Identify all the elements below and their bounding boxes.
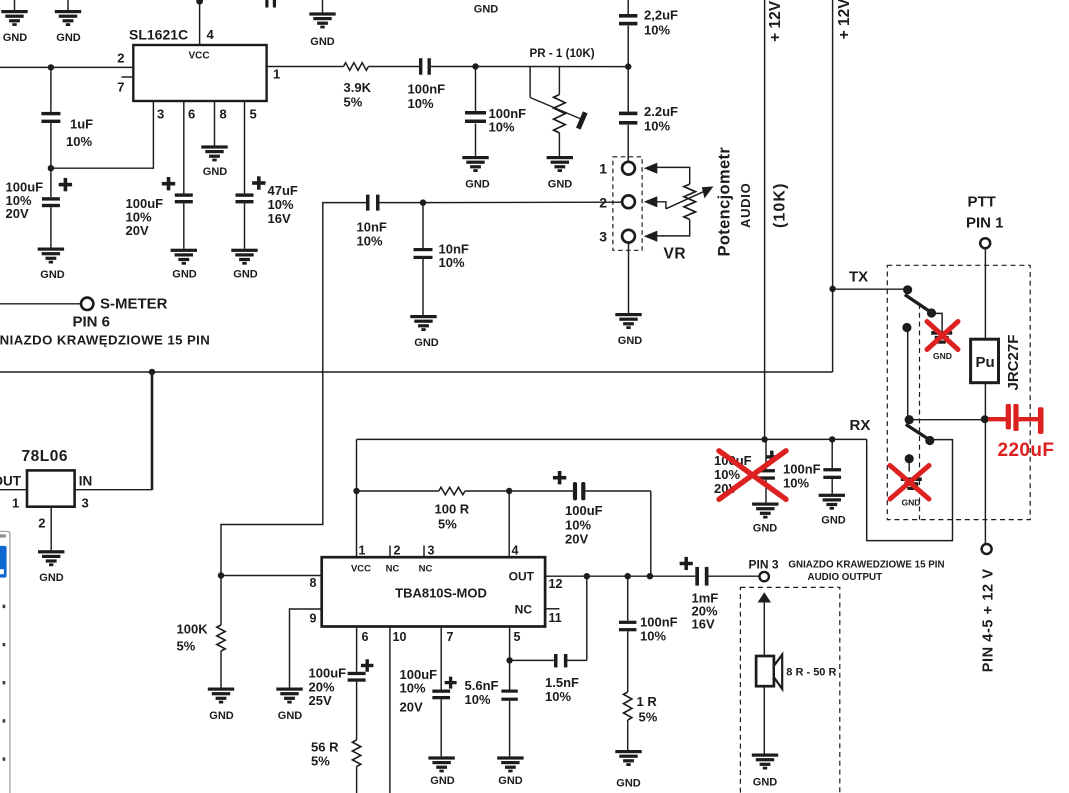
capacitor C 1uF 10% — [41, 112, 60, 115]
svg-text:100uF: 100uF — [309, 666, 347, 681]
thick wire down to 78L06 IN — [151, 372, 154, 490]
svg-text:6: 6 — [362, 630, 369, 644]
trimmer PR-1 resistor body — [558, 67, 560, 95]
svg-text:NC: NC — [419, 564, 433, 575]
svg-text:100K: 100K — [177, 622, 209, 637]
wire node D to 2.2uF — [627, 67, 629, 112]
VR arrow to pin 1 — [644, 163, 658, 174]
terminal PIN 3 circle — [760, 572, 769, 581]
svg-text:PIN 3: PIN 3 — [749, 558, 779, 572]
svg-text:7: 7 — [117, 80, 124, 95]
crossed ground RX (mini) — [901, 477, 922, 481]
U3 pin 6 wire — [356, 627, 358, 672]
speaker dashed outline — [740, 587, 839, 793]
node N junction +12V/RX (765,439) — [761, 436, 767, 442]
capacitor 1uF lower wire — [50, 123, 52, 168]
svg-text:PR - 1 (10K): PR - 1 (10K) — [530, 47, 595, 60]
svg-text:AUDIO: AUDIO — [738, 183, 753, 228]
capacitor C 100nF 10% (below pin12 line) — [627, 576, 629, 621]
svg-text:GND: GND — [498, 775, 523, 787]
svg-text:10%: 10% — [439, 255, 465, 270]
wire down to pin12 node — [650, 491, 652, 576]
capacitor C 2.2uF 10% — [619, 112, 637, 116]
switch SW2 thrown contact — [925, 436, 934, 445]
U2 OUT wire to left edge — [0, 489, 27, 491]
ground below shunt 10nF — [410, 315, 436, 318]
svg-text:GND: GND — [753, 523, 778, 535]
svg-text:1: 1 — [599, 161, 607, 177]
capacitor C 100uF 10% 20V crossed out — [765, 439, 767, 469]
svg-text:1uF: 1uF — [70, 117, 93, 132]
IC U1 SL1621C body — [133, 45, 266, 101]
connector J1 pin 2 circle — [622, 195, 635, 208]
relay inner dashed divider — [919, 304, 921, 520]
wire SW2 lower to crossed ground — [908, 459, 910, 472]
svg-text:GND: GND — [474, 4, 499, 16]
svg-text:3: 3 — [157, 107, 164, 122]
wire pin 1 output — [267, 66, 344, 68]
ground below PR-1 — [547, 156, 573, 159]
U3 pin 3 tick — [423, 546, 425, 558]
svg-text:1 R: 1 R — [637, 694, 658, 709]
svg-text:10%: 10% — [357, 234, 383, 249]
svg-text:GND: GND — [203, 166, 228, 178]
capacitor C 100uF 10% 20V (pin 7) — [432, 690, 450, 693]
node P junction TX (833,289) — [829, 286, 835, 292]
U3 pin 1 wire (VCC) — [356, 491, 358, 557]
capacitor C 220uF (red) — [988, 417, 1006, 421]
node G junction (356,491) — [353, 488, 359, 494]
VR arrow to pin 3 — [644, 231, 658, 242]
svg-text:100nF: 100nF — [783, 462, 821, 477]
capacitor C 100nF 10% (RX) — [831, 439, 833, 468]
svg-text:GNIAZDO KRAWEDZIOWE 15 PIN: GNIAZDO KRAWEDZIOWE 15 PIN — [788, 560, 944, 571]
svg-text:100 R: 100 R — [435, 502, 470, 517]
svg-text:S-METER: S-METER — [100, 296, 168, 313]
svg-text:GND: GND — [548, 179, 573, 191]
U3 pin 10 wire — [389, 627, 391, 793]
wire relay coil down to +12V terminal — [984, 383, 986, 544]
svg-text:3: 3 — [82, 496, 89, 511]
node H junction (509,491) — [506, 488, 512, 494]
ground stub top middle — [322, 0, 324, 12]
node L junction (628,576) — [625, 573, 631, 579]
ground below pin 9 — [276, 688, 302, 691]
svg-text:2,2uF: 2,2uF — [644, 8, 678, 23]
svg-text:4: 4 — [512, 544, 519, 558]
svg-text:+ 12V: + 12V — [836, 0, 853, 39]
svg-text:56 R: 56 R — [311, 740, 339, 755]
switch SW1 TX common contact — [903, 285, 912, 294]
svg-text:GND: GND — [40, 269, 65, 281]
U1 pin 3 wire down and left to node B — [51, 101, 153, 168]
node I junction pin8 (221,576) — [218, 572, 224, 578]
svg-text:3.9K: 3.9K — [344, 80, 372, 95]
svg-text:TBA810S-MOD: TBA810S-MOD — [395, 586, 487, 601]
wire RX detour around relay — [867, 439, 953, 540]
resistor R 56R 5% — [352, 740, 360, 767]
U3 pin 5 wire — [509, 627, 511, 661]
potentiometer VR body — [684, 184, 696, 219]
wire U3 pin 12 output line — [545, 575, 695, 577]
switch SW2 RX common contact — [905, 415, 914, 424]
svg-text:AUDIO OUTPUT: AUDIO OUTPUT — [808, 572, 883, 583]
svg-text:10%: 10% — [640, 629, 666, 644]
rail +12V no.2 vertical — [832, 0, 834, 372]
svg-text:GND: GND — [310, 36, 335, 48]
resistor R 100R 5% — [357, 490, 439, 492]
switch SW1 lever — [905, 295, 932, 313]
capacitor C 1mF 20% 16V — [695, 567, 699, 586]
svg-text:GND: GND — [233, 269, 258, 281]
svg-text:8: 8 — [220, 107, 227, 122]
svg-text:4: 4 — [207, 27, 215, 42]
terminal S-METER circle — [81, 298, 93, 310]
U3 pin 8 wire — [221, 575, 322, 577]
svg-text:11: 11 — [549, 611, 562, 625]
svg-text:NC: NC — [515, 603, 533, 617]
wire resistor to series cap — [368, 66, 419, 68]
svg-text:IN: IN — [79, 474, 93, 489]
ground below 5.6nF — [497, 756, 523, 759]
svg-text:GND: GND — [430, 775, 455, 787]
wire series cap to node C — [431, 66, 476, 68]
wire SW1 to crossed ground — [932, 313, 943, 331]
svg-text:RX: RX — [850, 417, 871, 434]
sidebar panel border — [0, 531, 10, 793]
wire 2.2uF to connector pin 1 — [627, 125, 629, 162]
svg-text:GND: GND — [933, 351, 952, 361]
U1 pin 8 wire — [214, 101, 216, 145]
svg-text:3: 3 — [599, 229, 607, 245]
wire pin 2 to left edge — [0, 66, 133, 68]
wire to S-METER terminal — [0, 303, 81, 305]
svg-text:SL1621C: SL1621C — [129, 27, 188, 43]
svg-text:5: 5 — [250, 107, 257, 122]
svg-text:20V: 20V — [565, 532, 588, 547]
svg-text:Potencjometr: Potencjometr — [716, 147, 734, 257]
svg-text:10%: 10% — [489, 120, 515, 135]
svg-text:+ 12V: + 12V — [767, 0, 784, 42]
red X over TX ground — [927, 322, 958, 350]
switch SW1 thrown contact — [927, 308, 936, 317]
svg-text:47uF: 47uF — [268, 183, 298, 198]
svg-text:GND: GND — [172, 269, 197, 281]
node M junction (650,576) — [647, 573, 653, 579]
capacitor C 100uF 20% 25V (pin 6) — [348, 672, 366, 675]
U1 pin 5 wire — [244, 101, 246, 193]
svg-text:10%: 10% — [545, 689, 571, 704]
svg-text:16V: 16V — [268, 211, 291, 226]
svg-text:10%: 10% — [644, 23, 670, 38]
svg-text:100nF: 100nF — [408, 82, 446, 97]
VR wiper arm with arrow — [666, 191, 705, 209]
U3 pin 11 tick — [545, 608, 559, 610]
svg-text:10: 10 — [393, 630, 407, 644]
svg-text:GND: GND — [209, 710, 234, 722]
red X over RX ground — [890, 466, 929, 500]
wire speaker to ground — [763, 686, 765, 753]
svg-text:1.5nF: 1.5nF — [545, 675, 579, 690]
svg-text:TX: TX — [849, 269, 868, 286]
svg-text:PIN 4-5 + 12 V: PIN 4-5 + 12 V — [981, 568, 997, 672]
wire TX to switch — [833, 288, 908, 290]
svg-text:100uF: 100uF — [565, 503, 603, 518]
crossed ground TX (mini) — [931, 331, 952, 335]
U1 pin 7 stub — [122, 76, 134, 78]
capacitor C 100uF 10% 20V (pin 6) — [175, 193, 193, 196]
wire RX line — [357, 438, 867, 440]
svg-text:10nF: 10nF — [357, 220, 387, 235]
svg-text:GND: GND — [465, 179, 490, 191]
ground below pin 5 cap — [231, 249, 257, 252]
U2 pin 2 wire to ground — [50, 507, 52, 551]
svg-text:1: 1 — [359, 544, 366, 558]
capacitor C 100nF 10% shunt — [475, 67, 477, 112]
node D junction — [625, 63, 631, 69]
capacitor fragment at top edge — [265, 0, 268, 8]
capacitor 1uF upper wire — [50, 67, 52, 112]
svg-text:GND: GND — [616, 778, 641, 790]
svg-text:GND: GND — [414, 337, 439, 349]
resistor R 1R 5% — [624, 692, 632, 720]
node F junction at (152,372) — [149, 369, 155, 375]
capacitor C 2,2uF 10% — [619, 14, 637, 18]
ground below 78L06 — [38, 550, 64, 553]
svg-text:NC: NC — [386, 564, 400, 575]
capacitor C 10nF 10% shunt — [422, 203, 424, 248]
ground below crossed 100uF — [752, 503, 778, 506]
svg-text:OUT: OUT — [509, 570, 535, 584]
U3 pin 7 wire — [440, 627, 442, 690]
ground top-left 1 — [1, 10, 27, 13]
svg-text:2: 2 — [117, 51, 124, 66]
svg-text:10%: 10% — [268, 197, 294, 212]
PR-1 wiper stub — [529, 67, 531, 98]
U1 pin 6 wire — [183, 101, 185, 193]
svg-text:JRC27F: JRC27F — [1005, 335, 1022, 391]
svg-text:5.6nF: 5.6nF — [465, 678, 499, 693]
svg-text:20V: 20V — [126, 223, 149, 238]
PR-1 wiper bar — [578, 112, 585, 128]
svg-text:10%: 10% — [465, 692, 491, 707]
svg-text:5: 5 — [514, 630, 521, 644]
node O junction (832,439) — [829, 436, 835, 442]
svg-text:2: 2 — [38, 516, 45, 531]
capacitor C 47uF 10% 16V (pin 5) — [236, 193, 254, 196]
capacitor C 5.6nF 10% — [509, 660, 511, 689]
wire 1.5nF up to pin 12 line — [586, 576, 588, 660]
connector J1 dashed outline — [613, 157, 642, 251]
svg-text:VCC: VCC — [188, 51, 209, 62]
svg-text:5%: 5% — [311, 754, 330, 769]
svg-text:20V: 20V — [400, 700, 423, 715]
svg-text:10%: 10% — [66, 134, 92, 149]
sidebar tick marks — [3, 605, 6, 608]
svg-text:8: 8 — [310, 576, 317, 590]
svg-text:VR: VR — [664, 246, 687, 263]
resistor R 100K 5% — [220, 576, 222, 626]
ground top middle — [309, 12, 335, 15]
svg-text:5%: 5% — [177, 639, 196, 654]
ground stub top-left 2 — [67, 0, 69, 11]
ground below RX 100nF — [819, 494, 845, 497]
svg-text:GND: GND — [3, 32, 28, 44]
wire RX corner down to 100R node — [356, 439, 358, 491]
wire 10nF line to connector pin 2 — [423, 201, 622, 203]
node K junction (587,576) — [584, 573, 590, 579]
PR-1 wiper arm — [530, 98, 581, 120]
svg-text:1: 1 — [273, 67, 280, 82]
node on pin 4 wire at top edge — [196, 0, 203, 5]
svg-text:GND: GND — [39, 572, 64, 584]
ground below pin 6 cap — [171, 249, 197, 252]
svg-text:GNIAZDO KRAWĘDZIOWE 15 PIN: GNIAZDO KRAWĘDZIOWE 15 PIN — [0, 333, 210, 348]
svg-text:8 R - 50 R: 8 R - 50 R — [786, 667, 836, 679]
relay coil Pu body — [971, 339, 999, 383]
wire SW2 common to 220uF junction — [909, 419, 984, 421]
svg-text:220uF: 220uF — [998, 440, 1055, 461]
svg-text:GND: GND — [618, 335, 643, 347]
svg-text:Pu: Pu — [976, 354, 995, 371]
ground below 1R — [615, 750, 641, 753]
svg-text:OUT: OUT — [0, 474, 22, 489]
ground below pin 8 — [201, 145, 227, 148]
speaker LS1 8R-50R — [756, 656, 774, 686]
svg-text:100nF: 100nF — [640, 615, 678, 630]
wire node C to PR-1 and 2.2uF node — [476, 66, 629, 68]
svg-text:10%: 10% — [565, 518, 591, 533]
svg-text:20V: 20V — [6, 206, 29, 221]
capacitor C 100uF 10% 20V series (right of 100R) — [509, 490, 573, 492]
svg-text:25V: 25V — [309, 693, 332, 708]
wire PTT to relay coil — [984, 248, 986, 339]
VR arrow to pin 2 (wiper) — [644, 196, 658, 207]
wire top edge to 2,2uF — [627, 0, 629, 14]
wire 2,2uF to node D — [627, 26, 629, 67]
ground stub top-left 1 — [14, 0, 16, 11]
U3 pin 9 wire — [290, 609, 322, 688]
svg-text:VCC: VCC — [351, 564, 371, 575]
ground below pin 7 cap — [428, 756, 454, 759]
terminal PTT circle — [980, 238, 990, 248]
ground below 100uF left — [38, 248, 64, 251]
terminal PIN 4-5 circle — [982, 544, 992, 554]
node J junction (510,660) — [506, 657, 512, 663]
svg-text:16V: 16V — [692, 617, 715, 632]
node Q junction (985,419) — [981, 415, 989, 423]
svg-text:PTT: PTT — [968, 194, 996, 211]
arrow up into speaker box — [758, 592, 771, 602]
regulator U2 78L06 body — [27, 470, 75, 506]
capacitor C 10nF 10% series — [366, 195, 370, 211]
svg-text:GND: GND — [902, 498, 921, 508]
red X over 100uF — [719, 451, 786, 500]
switch SW2 lever — [906, 424, 930, 440]
capacitor C 100uF 10% 20V (left) — [50, 168, 52, 197]
svg-text:10%: 10% — [714, 467, 740, 482]
svg-text:6: 6 — [188, 107, 195, 122]
svg-text:5%: 5% — [639, 710, 658, 725]
switch SW2 lower contact — [905, 454, 914, 463]
ground top-left 2 — [55, 10, 81, 13]
svg-text:9: 9 — [310, 612, 317, 626]
node A junction at (51,67) — [48, 64, 54, 70]
U2 IN wire — [75, 489, 152, 491]
svg-text:2.2uF: 2.2uF — [644, 104, 678, 119]
IC U3 TBA810S-MOD body — [322, 557, 545, 626]
resistor R 3.9K 5% — [344, 63, 369, 71]
svg-text:12: 12 — [549, 577, 563, 591]
svg-text:10%: 10% — [400, 681, 426, 696]
wire series 10nF to node E — [380, 202, 424, 204]
svg-text:7: 7 — [447, 630, 454, 644]
ground below shunt 100nF — [462, 156, 488, 159]
svg-text:5%: 5% — [438, 517, 457, 532]
svg-text:10%: 10% — [644, 119, 670, 134]
bus wire +12V horizontal y=372 — [0, 371, 833, 373]
svg-text:PIN 6: PIN 6 — [73, 314, 111, 331]
wire circle 3 to ground — [628, 243, 630, 313]
U3 pin 4 wire — [508, 491, 510, 557]
relay dashed outline — [887, 265, 1030, 519]
ground below 100K — [208, 688, 234, 691]
svg-text:GND: GND — [753, 777, 778, 789]
capacitor C 100nF 10% series — [419, 58, 422, 75]
U1 pin 4 wire — [199, 0, 201, 45]
svg-text:GND: GND — [56, 32, 81, 44]
ground below speaker — [752, 754, 778, 757]
ground below connector — [615, 313, 641, 316]
U3 pin 2 tick — [389, 546, 391, 558]
sidebar blue selection — [0, 546, 7, 578]
rail +12V no.1 vertical — [764, 0, 766, 439]
svg-text:3: 3 — [428, 544, 435, 558]
svg-text:10%: 10% — [783, 475, 809, 490]
svg-text:GND: GND — [278, 710, 303, 722]
wire SW1 lower to SW2 common — [907, 328, 909, 420]
svg-text:10%: 10% — [408, 96, 434, 111]
connector J1 pin 3 circle — [622, 230, 635, 243]
node E junction — [420, 199, 426, 205]
node B junction at (51,168) — [48, 165, 54, 171]
svg-text:5%: 5% — [344, 95, 363, 110]
svg-text:2: 2 — [394, 544, 401, 558]
wire from corner down the left 10nF branch — [221, 203, 366, 576]
switch SW1 lower contact — [902, 323, 911, 332]
svg-text:PIN 1: PIN 1 — [966, 215, 1004, 232]
svg-text:(10K): (10K) — [772, 182, 789, 228]
svg-text:78L06: 78L06 — [22, 448, 68, 465]
capacitor C 1.5nF 10% — [510, 659, 554, 661]
connector J1 pin 1 circle — [622, 162, 635, 175]
node C junction — [472, 63, 478, 69]
sidebar gray pill — [0, 534, 6, 537]
svg-text:1: 1 — [12, 496, 19, 511]
svg-text:GND: GND — [821, 515, 846, 527]
